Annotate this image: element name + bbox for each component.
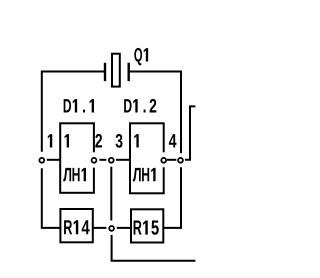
- node: D1.1 output inversion bubble: [92, 158, 97, 163]
- wire: junction to pin 3 of D1.2: [116, 159, 130, 161]
- wire: top rail right of crystal down to output node: [130, 72, 181, 154]
- gate symbol 1 in D1.1: [65, 134, 69, 147]
- wire: top rail left with corner into left rail: [42, 72, 104, 152]
- wire: D1.1 output pin 2 lead: [99, 159, 106, 161]
- label Q1: [134, 48, 148, 65]
- pin 4 number: [169, 134, 177, 147]
- label R15: [134, 220, 159, 234]
- node: pin 1 terminal circle: [39, 158, 44, 163]
- wire: R14 output to bottom junction: [93, 227, 106, 229]
- node: bottom junction between R14 and R15: [109, 226, 114, 231]
- wire: pin 1 lead into D1.1: [47, 159, 61, 161]
- resistor R15 body: [131, 209, 163, 242]
- node: right output node: [178, 158, 183, 163]
- wire: external lead entering from right edge: [185, 106, 195, 159]
- wire: bottom junction to R15: [117, 227, 131, 229]
- wire: bottom rail to right edge: [112, 235, 196, 261]
- wire: D1.2 output pin 4 lead to right node: [167, 159, 176, 161]
- label D1.1: [64, 99, 94, 112]
- node: D1.2 output inversion bubble: [161, 158, 166, 163]
- gate D1.1 body: [60, 123, 94, 193]
- wire: R15 right side up to output node: [164, 167, 181, 228]
- label D1.2: [124, 99, 156, 113]
- node: junction between gates: [109, 158, 114, 163]
- label R14: [64, 220, 89, 234]
- crystal Q1 electrodes: [105, 63, 129, 81]
- crystal Q1 body: [112, 54, 120, 87]
- gap in D1.2 right edge around bubble: [161, 152, 166, 167]
- resistor R14 body: [60, 209, 92, 242]
- gate symbol 1 in D1.2: [134, 134, 138, 147]
- label ЛН1 in D1.2: [133, 168, 156, 182]
- wire: left rail below pin 1 node down to R14 lead: [42, 168, 61, 228]
- pin 2 number: [95, 134, 102, 148]
- wire: feedback vertical from junction between gates: [110, 167, 112, 221]
- gap in D1.1 right edge around bubble: [91, 152, 96, 167]
- gate D1.2 body: [130, 123, 164, 193]
- label ЛН1 in D1.1: [63, 168, 86, 182]
- pin 1 number: [48, 134, 52, 147]
- pin 3 number: [116, 134, 123, 148]
